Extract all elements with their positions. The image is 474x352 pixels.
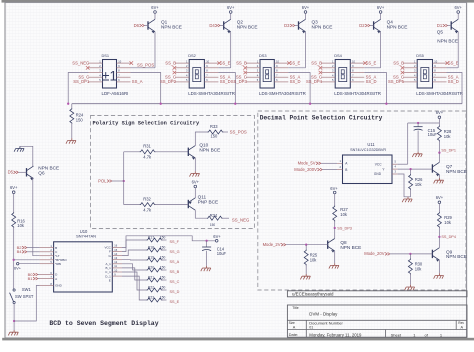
wire U10 pin 9 to R23	[122, 276, 147, 300]
svg-text:SS_POS: SS_POS	[137, 63, 154, 68]
junction SW1-U10 ground node	[13, 320, 15, 322]
svg-text:SS_E: SS_E	[448, 60, 459, 65]
power 6V+ for Q4	[379, 11, 382, 14]
svg-text:SS_E: SS_E	[170, 300, 180, 304]
svg-text:SS_G: SS_G	[170, 250, 180, 254]
U10 pin 15 stub	[112, 251, 122, 253]
svg-text:BCD to Seven Segment Display: BCD to Seven Segment Display	[49, 320, 158, 327]
svg-text:SS_DP2: SS_DP2	[160, 79, 177, 84]
svg-text:R23: R23	[148, 295, 154, 299]
svg-text:LDS-SMHTA304RISITR: LDS-SMHTA304RISITR	[188, 91, 235, 96]
svg-text:B: B	[345, 168, 347, 172]
ground below Q8	[329, 263, 339, 268]
junction on rail	[385, 103, 387, 105]
resistor R33	[208, 130, 224, 134]
svg-text:B4: B4	[17, 249, 23, 254]
DS4 pin 7 stub	[350, 76, 364, 78]
wire rail to R24	[71, 104, 73, 108]
svg-text:10k: 10k	[415, 266, 423, 271]
DS2 pin 10 stub	[204, 62, 218, 64]
wire Q9 emitter to ground	[438, 260, 440, 273]
svg-text:*RBI: *RBI	[55, 262, 61, 266]
svg-text:NPN BCE: NPN BCE	[340, 245, 361, 250]
wire node to Q8 collector	[334, 228, 336, 238]
ground below SW1	[8, 330, 18, 335]
svg-text:SS_DP5: SS_DP5	[388, 79, 405, 84]
ground below C15	[412, 152, 422, 157]
svg-text:SS_F: SS_F	[170, 240, 180, 244]
wire 6V+ to Q5 collector	[457, 13, 459, 19]
svg-text:DS2: DS2	[188, 53, 196, 58]
svg-text:GND: GND	[55, 284, 63, 288]
U10 pin 3 (*LT) stub	[40, 255, 54, 257]
svg-text:Size: Size	[289, 321, 295, 325]
junction at C15	[417, 122, 419, 124]
svg-text:6V+: 6V+	[10, 185, 18, 190]
svg-text:SS_DP3: SS_DP3	[231, 79, 248, 84]
power 6V+ for Q1	[154, 11, 157, 14]
svg-text:Title: Title	[292, 306, 298, 310]
svg-text:10k: 10k	[444, 220, 452, 225]
DS4 pin 10 stub	[350, 62, 364, 64]
svg-text:SS_B: SS_B	[311, 60, 322, 65]
svg-text:LDS-SMHTA304RISITR: LDS-SMHTA304RISITR	[259, 91, 306, 96]
svg-text:DVM - Display: DVM - Display	[309, 311, 338, 316]
no-connect DS3 pin 2	[243, 66, 247, 70]
dashed box Polarity Sign Selection Circuitry	[91, 116, 255, 229]
svg-text:NPN BCE: NPN BCE	[161, 24, 182, 29]
no-connect DS4 pin 2	[319, 66, 323, 70]
wire DS1 pin 8 down to common rail	[131, 73, 161, 104]
title block top bar	[287, 291, 467, 297]
IC U10 SN7447AN box	[54, 242, 113, 292]
svg-text:SW1: SW1	[22, 287, 32, 292]
svg-text:150: 150	[76, 117, 84, 122]
wire R28 to SS_DP1 node	[438, 141, 440, 153]
U10 pin 16 stub	[112, 246, 122, 248]
svg-text:A: A	[293, 326, 296, 330]
U10 pin 8 (GND) stub	[40, 285, 54, 287]
DS4 pin 5 stub	[321, 81, 335, 83]
svg-text:150: 150	[160, 295, 166, 299]
DS3 pin 4 stub	[246, 76, 260, 78]
wire 6V+ to R29	[438, 204, 440, 212]
resistor R24	[70, 108, 74, 124]
svg-text:NPN BCE: NPN BCE	[237, 24, 258, 29]
U10 pin 4 (*BI*RBO) stub	[40, 259, 54, 261]
DS3 pin 3 stub	[246, 72, 260, 74]
junction R30	[409, 253, 411, 255]
svg-text:R31: R31	[143, 144, 151, 149]
junction on rail	[234, 103, 236, 105]
DS1 pin 2 stub	[89, 67, 103, 69]
svg-text:Decimal Point Selection Circui: Decimal Point Selection Circuitry	[260, 115, 383, 122]
svg-text:±1: ±1	[102, 69, 117, 84]
svg-text:NPN BCE: NPN BCE	[387, 24, 408, 29]
svg-text:LDS-SMHTA304RISITR: LDS-SMHTA304RISITR	[416, 91, 463, 96]
resistor R34	[207, 216, 223, 220]
transistor Q11 PNP	[187, 200, 189, 208]
DS5 pin 7 stub	[433, 76, 447, 78]
svg-text:SS_B: SS_B	[170, 270, 180, 274]
wire R29 to SS_DP4 node	[438, 227, 440, 237]
svg-text:10k: 10k	[310, 257, 318, 262]
svg-text:SS_B: SS_B	[236, 60, 247, 65]
display DS5 seven-segment glyph	[421, 68, 429, 82]
transistor Q6 NPN	[26, 168, 28, 176]
svg-text:6V+: 6V+	[377, 5, 385, 10]
wire DS2 pin 9 to transistor emitter	[218, 67, 230, 69]
junction R25	[305, 244, 307, 246]
power 6V+ above R29	[438, 201, 441, 204]
DS1 pin 8 stub	[117, 72, 131, 74]
svg-text:SN74LVC1G32DBVR: SN74LVC1G32DBVR	[350, 148, 386, 152]
svg-text:R34: R34	[210, 213, 218, 218]
power 6V+ to U10 pin 5 (RBI)	[17, 263, 19, 265]
capacitor C14	[206, 241, 208, 247]
DS4 pin 6 stub	[350, 81, 364, 83]
power 6V+ for Q5	[457, 11, 460, 14]
svg-text:NPN BCE: NPN BCE	[437, 39, 458, 44]
DS5 pin 3 stub	[403, 72, 417, 74]
ground below R30	[405, 285, 415, 290]
DS1 pin 10 stub	[117, 62, 131, 64]
svg-text:R22: R22	[148, 285, 154, 289]
resistor R16	[12, 212, 16, 228]
svg-text:6V+: 6V+	[227, 5, 235, 10]
svg-text:6V+: 6V+	[454, 5, 462, 10]
ground at Q6 collector	[14, 146, 24, 151]
display DS2 seven-segment glyph	[193, 68, 201, 82]
junction R26	[409, 168, 411, 170]
svg-text:6V+: 6V+	[14, 265, 22, 270]
wire Q10 emitter to ground	[194, 158, 196, 172]
svg-text:SW SPST: SW SPST	[15, 294, 34, 299]
U10 pin 1 (B) stub	[40, 247, 54, 249]
svg-text:Mode_200V: Mode_200V	[294, 167, 317, 172]
wire Q11 collector to R34	[195, 210, 207, 218]
resistor R30	[409, 254, 411, 259]
junction on rail	[309, 103, 311, 105]
svg-text:SS_D: SS_D	[448, 79, 459, 84]
U11 pin 2 stub	[337, 169, 343, 171]
svg-text:Q5: Q5	[437, 30, 444, 35]
DS4 pin 3 stub	[321, 72, 335, 74]
svg-text:D5: D5	[8, 170, 14, 175]
svg-text:Mode_20V: Mode_20V	[364, 251, 384, 256]
svg-text:R17: R17	[148, 235, 154, 239]
junction at C14	[205, 240, 207, 242]
svg-text:SS_E: SS_E	[290, 60, 301, 65]
no-connect DS1 pin 2	[86, 66, 90, 70]
wire DS5 pin 8 down to common rail	[447, 73, 463, 104]
U11 pin 5 stub	[392, 163, 398, 165]
DS3 pin 10 stub	[274, 62, 288, 64]
wire 6V+ to R27	[334, 194, 336, 206]
wire U10 GND to ground node	[14, 286, 39, 322]
DS3 pin 9 stub	[274, 67, 288, 69]
ground below Q9	[434, 273, 444, 278]
svg-text:4.7k: 4.7k	[143, 208, 152, 213]
wire 6V+ to Q3 collector	[305, 13, 307, 19]
DS3 pin 6 stub	[274, 81, 288, 83]
resistor R22	[147, 288, 163, 292]
svg-text:10uF: 10uF	[217, 251, 227, 256]
wire U10 VCC to 6V+ and C14	[122, 236, 215, 248]
wire DS4 pin 8 down to common rail	[364, 73, 386, 104]
wire R25 to ground	[305, 265, 307, 275]
svg-text:Rev: Rev	[458, 321, 464, 325]
svg-text:NPN BCE: NPN BCE	[446, 169, 467, 174]
svg-text:6V+: 6V+	[192, 179, 200, 184]
switch SW1 SPST	[13, 289, 15, 291]
wire R27 to SS_DP3 node	[334, 221, 336, 229]
wire Q8 emitter to ground	[334, 251, 336, 263]
svg-text:SS_A: SS_A	[132, 79, 143, 84]
wire C15 to ground	[417, 131, 419, 152]
svg-text:4.7k: 4.7k	[143, 155, 152, 160]
resistor R29	[437, 212, 441, 228]
svg-text:R19: R19	[148, 255, 154, 259]
wire node to Q9 collector	[438, 237, 440, 248]
DS1 pin 5 stub	[89, 81, 103, 83]
DS2 pin 6 stub	[204, 81, 218, 83]
power 6V+ above Q11	[194, 185, 197, 188]
resistor R18	[147, 248, 163, 252]
wire 6V+ rail to VCC	[398, 163, 408, 165]
svg-text:SS_A: SS_A	[170, 260, 180, 264]
transistor Q1 NPN	[147, 21, 149, 29]
DS5 pin 6 stub	[433, 81, 447, 83]
transistor Q3 NPN	[298, 21, 300, 29]
ground below R24	[66, 138, 76, 143]
DS5 pin 5 stub	[403, 81, 417, 83]
wire R16 to SW1	[13, 227, 15, 289]
resistor R28	[438, 123, 440, 126]
U10 pin 7 (A) stub	[40, 278, 54, 280]
DS1 pin 9 stub	[117, 67, 131, 69]
svg-text:6V+: 6V+	[302, 5, 310, 10]
wire U10 pin 15 to R17	[122, 240, 147, 252]
wire U10 pin 10 to R22	[122, 272, 147, 290]
ground below R26	[402, 197, 412, 202]
svg-text:D2: D2	[359, 23, 365, 28]
wire ground to Q6 collector	[20, 146, 33, 166]
wire R30 to ground	[409, 274, 411, 285]
ground below Q10	[190, 171, 200, 176]
DS3 pin 2 stub	[246, 67, 260, 69]
no-connect DS3 pin 3	[243, 71, 247, 75]
display DS2 box	[189, 60, 204, 89]
DS2 pin 2 stub	[175, 67, 189, 69]
transistor Q5 NPN	[450, 21, 452, 29]
svg-text:150: 150	[160, 275, 166, 279]
svg-text:6V+: 6V+	[213, 234, 221, 239]
svg-text:NPN BCE: NPN BCE	[446, 254, 467, 259]
svg-text:Q6: Q6	[38, 171, 45, 176]
DS2 pin 7 stub	[204, 76, 218, 78]
wire to R31	[124, 151, 140, 153]
resistor R27	[333, 206, 337, 222]
svg-text:LDS-SMHTA304RISITR: LDS-SMHTA304RISITR	[334, 91, 381, 96]
svg-text:6V+: 6V+	[151, 5, 159, 10]
resistor R32	[140, 203, 156, 207]
junction R16 line to U10 BI/RBO	[13, 259, 15, 261]
svg-text:SS_DP4: SS_DP4	[306, 79, 323, 84]
svg-text:SS_NEG: SS_NEG	[232, 217, 250, 222]
svg-text:Sheet: Sheet	[391, 332, 402, 337]
DS2 pin 8 stub	[204, 72, 218, 74]
resistor R17	[147, 238, 163, 242]
svg-text:SS_B: SS_B	[165, 60, 176, 65]
resistor R19	[147, 258, 163, 262]
svg-text:6V+: 6V+	[436, 110, 444, 115]
svg-text:R18: R18	[148, 245, 154, 249]
svg-text:B1: B1	[28, 276, 34, 281]
wire Q6 emitter down to U10 pin 3	[33, 178, 40, 256]
display DS5 box	[417, 60, 432, 89]
svg-text:R33: R33	[210, 124, 218, 129]
wire 6V+ to R16	[13, 194, 15, 213]
DS3 pin 8 stub	[274, 72, 288, 74]
svg-text:SN7447AN: SN7447AN	[76, 234, 96, 239]
wire SW1 to ground	[13, 304, 15, 330]
svg-text:150: 150	[160, 285, 166, 289]
transistor Q9 NPN	[431, 250, 433, 258]
svg-text:6V+: 6V+	[330, 186, 338, 191]
wire DS3 pin 9 to transistor emitter	[288, 67, 305, 69]
svg-text:150: 150	[160, 245, 166, 249]
svg-text:150: 150	[160, 255, 166, 259]
svg-text:R21: R21	[148, 275, 154, 279]
dashed box Decimal Point Selection Circuitry	[258, 111, 466, 290]
wire R32 to Q11 base	[124, 204, 140, 206]
svg-text:SS_D: SS_D	[220, 79, 231, 84]
no-connect DS5 pin 2	[401, 66, 405, 70]
svg-text:GND: GND	[374, 172, 382, 176]
svg-text:01: 01	[309, 325, 313, 329]
svg-text:DS5: DS5	[416, 53, 424, 58]
transistor Q7 NPN	[431, 164, 433, 172]
DS2 pin 1 stub	[175, 62, 189, 64]
DS2 pin 5 stub	[175, 81, 189, 83]
svg-text:D3: D3	[284, 23, 290, 28]
wire DS1 pin 3 to rail	[68, 73, 88, 104]
wire junction to U10 pin 4	[14, 259, 40, 261]
wire DS3 pin 8 down to common rail	[288, 73, 310, 104]
svg-text:10k: 10k	[415, 182, 423, 187]
svg-text:Date:: Date:	[289, 332, 299, 337]
wire Q7 emitter to ground	[438, 175, 440, 178]
wire DS2 pin 8 down to common rail	[218, 73, 235, 104]
U10 pin 9 stub	[112, 275, 122, 277]
wire U10 pin 11 to R21	[122, 268, 147, 280]
svg-text:A: A	[55, 277, 57, 281]
U10 pin 5 (*RBI) stub	[40, 263, 54, 265]
svg-text:u/ECEiseasytheysaid: u/ECEiseasytheysaid	[292, 291, 334, 296]
svg-text:DS3: DS3	[259, 53, 267, 58]
DS3 pin 1 stub	[246, 62, 260, 64]
DS1 pin 7 stub	[117, 76, 131, 78]
resistor R20	[147, 268, 163, 272]
U10 pin 11 stub	[112, 267, 122, 269]
svg-text:SS_NEG: SS_NEG	[72, 60, 89, 65]
DS4 pin 2 stub	[321, 67, 335, 69]
ground below Q7	[434, 178, 444, 183]
U10 pin 2 (C) stub	[40, 251, 54, 253]
no-connect DS1 pin 10	[130, 61, 134, 65]
svg-text:PNP BCE: PNP BCE	[198, 199, 219, 204]
svg-text:NPN BCE: NPN BCE	[199, 147, 220, 152]
transistor Q8 NPN	[327, 241, 329, 249]
display DS1 box	[103, 60, 117, 89]
U10 pin 6 (D) stub	[40, 274, 54, 276]
svg-text:D4: D4	[209, 23, 215, 28]
svg-text:10k: 10k	[340, 212, 348, 217]
svg-text:150: 150	[210, 223, 216, 227]
svg-text:10k: 10k	[17, 223, 25, 228]
svg-text:150: 150	[160, 235, 166, 239]
power 6V+ for Q3	[304, 11, 307, 14]
U11 pin 4 stub	[392, 168, 398, 170]
svg-text:Mode_2V: Mode_2V	[263, 242, 281, 247]
svg-text:VCC: VCC	[375, 162, 382, 166]
DS4 pin 9 stub	[350, 67, 364, 69]
svg-text:150: 150	[211, 134, 219, 139]
wire 6V+ to C15/R28 node	[438, 119, 440, 123]
transistor Q2 NPN	[223, 21, 225, 29]
DS5 pin 9 stub	[433, 67, 447, 69]
wire R24 to ground	[71, 123, 73, 138]
display DS4 seven-segment glyph	[339, 68, 347, 82]
power 6V+ at C14	[215, 240, 218, 243]
svg-text:D6: D6	[134, 23, 140, 28]
DS5 pin 2 stub	[403, 67, 417, 69]
svg-text:SS_DP4: SS_DP4	[441, 235, 456, 239]
svg-text:Document Number: Document Number	[309, 320, 343, 325]
svg-text:SS_D: SS_D	[290, 79, 301, 84]
resistor R31	[140, 150, 156, 154]
DS4 pin 1 stub	[321, 62, 335, 64]
IC U11 SN74LVC1G32DBVR box	[343, 155, 393, 184]
DS1 pin 4 stub	[89, 76, 103, 78]
svg-text:Monday, February 11, 2019: Monday, February 11, 2019	[309, 332, 362, 337]
transistor Q4 NPN	[373, 21, 375, 29]
wire U10 pin 13 to R19	[122, 259, 147, 261]
ground below C14	[201, 266, 211, 271]
DS4 pin 4 stub	[321, 76, 335, 78]
svg-text:SS_D: SS_D	[170, 290, 180, 294]
wire U11 Y to Q7 base	[398, 168, 433, 170]
DS5 pin 8 stub	[433, 72, 447, 74]
svg-text:Mode_5V: Mode_5V	[298, 161, 316, 166]
U11 pin 3 stub	[392, 173, 398, 175]
DS5 pin 4 stub	[403, 76, 417, 78]
svg-text:SS_POS: SS_POS	[230, 129, 247, 134]
svg-text:SS_DP3: SS_DP3	[337, 226, 352, 230]
ground below R25	[300, 274, 310, 279]
svg-text:NPN BCE: NPN BCE	[312, 24, 333, 29]
DS5 pin 10 stub	[433, 62, 447, 64]
svg-text:10k: 10k	[444, 134, 452, 139]
wire 6V+ to Q4 collector	[380, 13, 382, 19]
wire C14 to ground	[206, 251, 208, 266]
power 6V+ above R16	[12, 191, 15, 194]
svg-text:Polarity Sign Selection Circui: Polarity Sign Selection Circuitry	[93, 121, 201, 127]
svg-text:10uF: 10uF	[428, 132, 438, 137]
wire common cathode rail	[72, 103, 462, 105]
svg-text:U11: U11	[367, 142, 375, 147]
